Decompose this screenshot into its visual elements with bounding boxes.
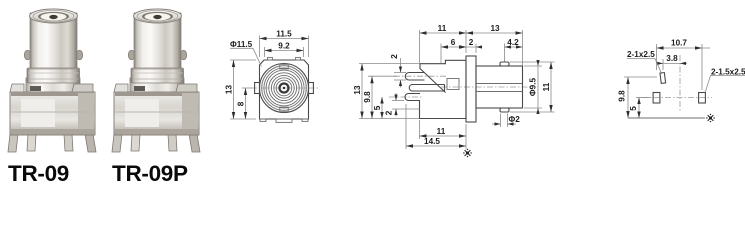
svg-text:9.8: 9.8 <box>363 91 372 103</box>
label TR-09 <box>8 161 69 186</box>
right ext lines <box>524 65 542 67</box>
svg-text:11: 11 <box>438 24 447 33</box>
dim 2 lower-left <box>395 93 397 101</box>
dim 4.2 <box>505 46 523 48</box>
ring r24.5 <box>260 64 309 113</box>
center dot <box>283 87 285 89</box>
svg-text:4.2: 4.2 <box>507 38 519 47</box>
body outline <box>420 60 467 118</box>
svg-text:2: 2 <box>469 38 474 47</box>
ring r22.3 <box>262 66 307 111</box>
dim 11 top <box>420 32 467 34</box>
dim 11 right <box>550 62 552 112</box>
dim 2 top <box>461 46 481 48</box>
dim 14.5 bottom <box>406 145 466 147</box>
leader 2-1x2.5 <box>627 59 661 73</box>
top notch left <box>268 58 273 60</box>
ring r15.2 <box>269 73 299 103</box>
photo connector TR-09P <box>112 9 200 152</box>
svg-text:8: 8 <box>237 101 246 106</box>
svg-text:2: 2 <box>385 110 394 115</box>
dim 11 bottom <box>420 135 467 137</box>
svg-text:TR-09P: TR-09P <box>112 161 188 186</box>
board reference line <box>628 117 705 119</box>
dim 2 upper-left <box>400 58 402 73</box>
lug bottom <box>500 108 509 112</box>
footprint drawing <box>618 39 745 123</box>
top ext lines <box>419 30 421 64</box>
pad mid-right 1.5x2.5 <box>699 93 706 104</box>
dim 6 <box>441 46 466 48</box>
reference mark <box>463 149 472 158</box>
svg-text:TR-09: TR-09 <box>8 161 69 186</box>
ext lines 9.2 <box>264 47 266 57</box>
body square <box>260 60 309 119</box>
svg-text:2: 2 <box>390 54 399 59</box>
pin 3 lower <box>405 94 420 101</box>
ext lines 10.7 <box>656 44 658 70</box>
ext lines 11.5 <box>259 36 261 58</box>
svg-text:9.2: 9.2 <box>278 42 290 51</box>
left ext lines <box>359 63 420 65</box>
dim 5 left <box>381 97 383 119</box>
dim D2 <box>500 114 502 128</box>
dim D9.5 <box>537 60 539 114</box>
barrel <box>476 66 523 108</box>
ring r17.9 <box>266 70 302 106</box>
centerline horizontal <box>251 87 318 89</box>
bottom tab <box>276 119 292 122</box>
label TR-09P <box>112 161 188 186</box>
dim 13 <box>233 60 235 119</box>
dim 9.2 <box>265 50 304 52</box>
photo connector TR-09 <box>8 9 96 152</box>
ring tab top <box>280 64 288 69</box>
internal rect <box>447 79 459 90</box>
centerline main <box>441 86 533 88</box>
ext line 9.8 <box>624 76 657 78</box>
ring tab bottom <box>280 107 288 112</box>
reference mark <box>706 114 715 123</box>
svg-text:5: 5 <box>373 105 382 110</box>
dim 5 <box>638 98 640 119</box>
svg-text:Φ2: Φ2 <box>509 115 521 124</box>
ext line 5 <box>636 97 650 99</box>
bottom corner mark right <box>302 119 308 121</box>
pad top 1x2.5 <box>660 73 666 84</box>
svg-text:6: 6 <box>451 38 456 47</box>
dim 13 left <box>361 64 363 119</box>
svg-text:Φ11.5: Φ11.5 <box>230 40 253 49</box>
centerline lower prong <box>389 96 423 98</box>
svg-text:13: 13 <box>225 85 234 95</box>
front view drawing <box>225 30 319 123</box>
centerline vertical <box>679 55 681 112</box>
ext lines 13 left <box>230 59 256 61</box>
svg-text:9.8: 9.8 <box>618 90 627 102</box>
ext line 3.8 <box>662 59 664 70</box>
svg-text:14.5: 14.5 <box>424 137 440 146</box>
centerline upper prong <box>394 75 446 77</box>
dim 9.8 <box>627 77 629 118</box>
svg-text:13: 13 <box>353 85 362 95</box>
svg-text:5: 5 <box>629 106 638 111</box>
ring r10.2 <box>274 78 294 98</box>
pin 2 middle <box>409 85 444 92</box>
side view drawing <box>353 24 555 157</box>
side lug right <box>309 83 314 94</box>
flange <box>466 56 476 122</box>
pad mid-left 1.5x2.5 <box>653 93 660 104</box>
svg-text:3.8: 3.8 <box>666 54 678 63</box>
dim 13 top <box>466 32 523 34</box>
bottom ext lines <box>419 120 421 139</box>
lug top <box>500 62 509 66</box>
boss r7.8 <box>276 80 292 96</box>
barrel inner lines <box>476 83 523 85</box>
dim 9.8 left <box>371 76 373 118</box>
ring r20.1 <box>264 68 304 108</box>
centerline horizontal <box>642 97 712 99</box>
bottom corner mark left <box>260 119 266 121</box>
svg-text:11.5: 11.5 <box>276 30 292 39</box>
svg-text:11: 11 <box>437 127 446 136</box>
svg-text:2-1.5x2.5: 2-1.5x2.5 <box>711 68 745 77</box>
leader 2-1.5x2.5 <box>705 76 745 93</box>
svg-text:11: 11 <box>542 82 551 91</box>
dim 11.5 <box>260 38 309 40</box>
svg-text:10.7: 10.7 <box>671 39 687 48</box>
ring r12.6 <box>271 75 296 100</box>
svg-text:13: 13 <box>490 24 500 33</box>
side lug left <box>255 83 260 94</box>
ext line 8 <box>242 87 252 89</box>
center ring <box>280 84 289 93</box>
dim 3.8 <box>656 62 687 64</box>
pin 1 upper <box>405 73 424 81</box>
svg-text:Φ9.5: Φ9.5 <box>529 78 538 97</box>
dim 8 <box>245 88 247 119</box>
dim 10.7 <box>657 47 711 49</box>
leader D11.5 <box>230 48 262 66</box>
top notch right <box>296 58 301 60</box>
svg-text:2-1x2.5: 2-1x2.5 <box>627 50 655 59</box>
